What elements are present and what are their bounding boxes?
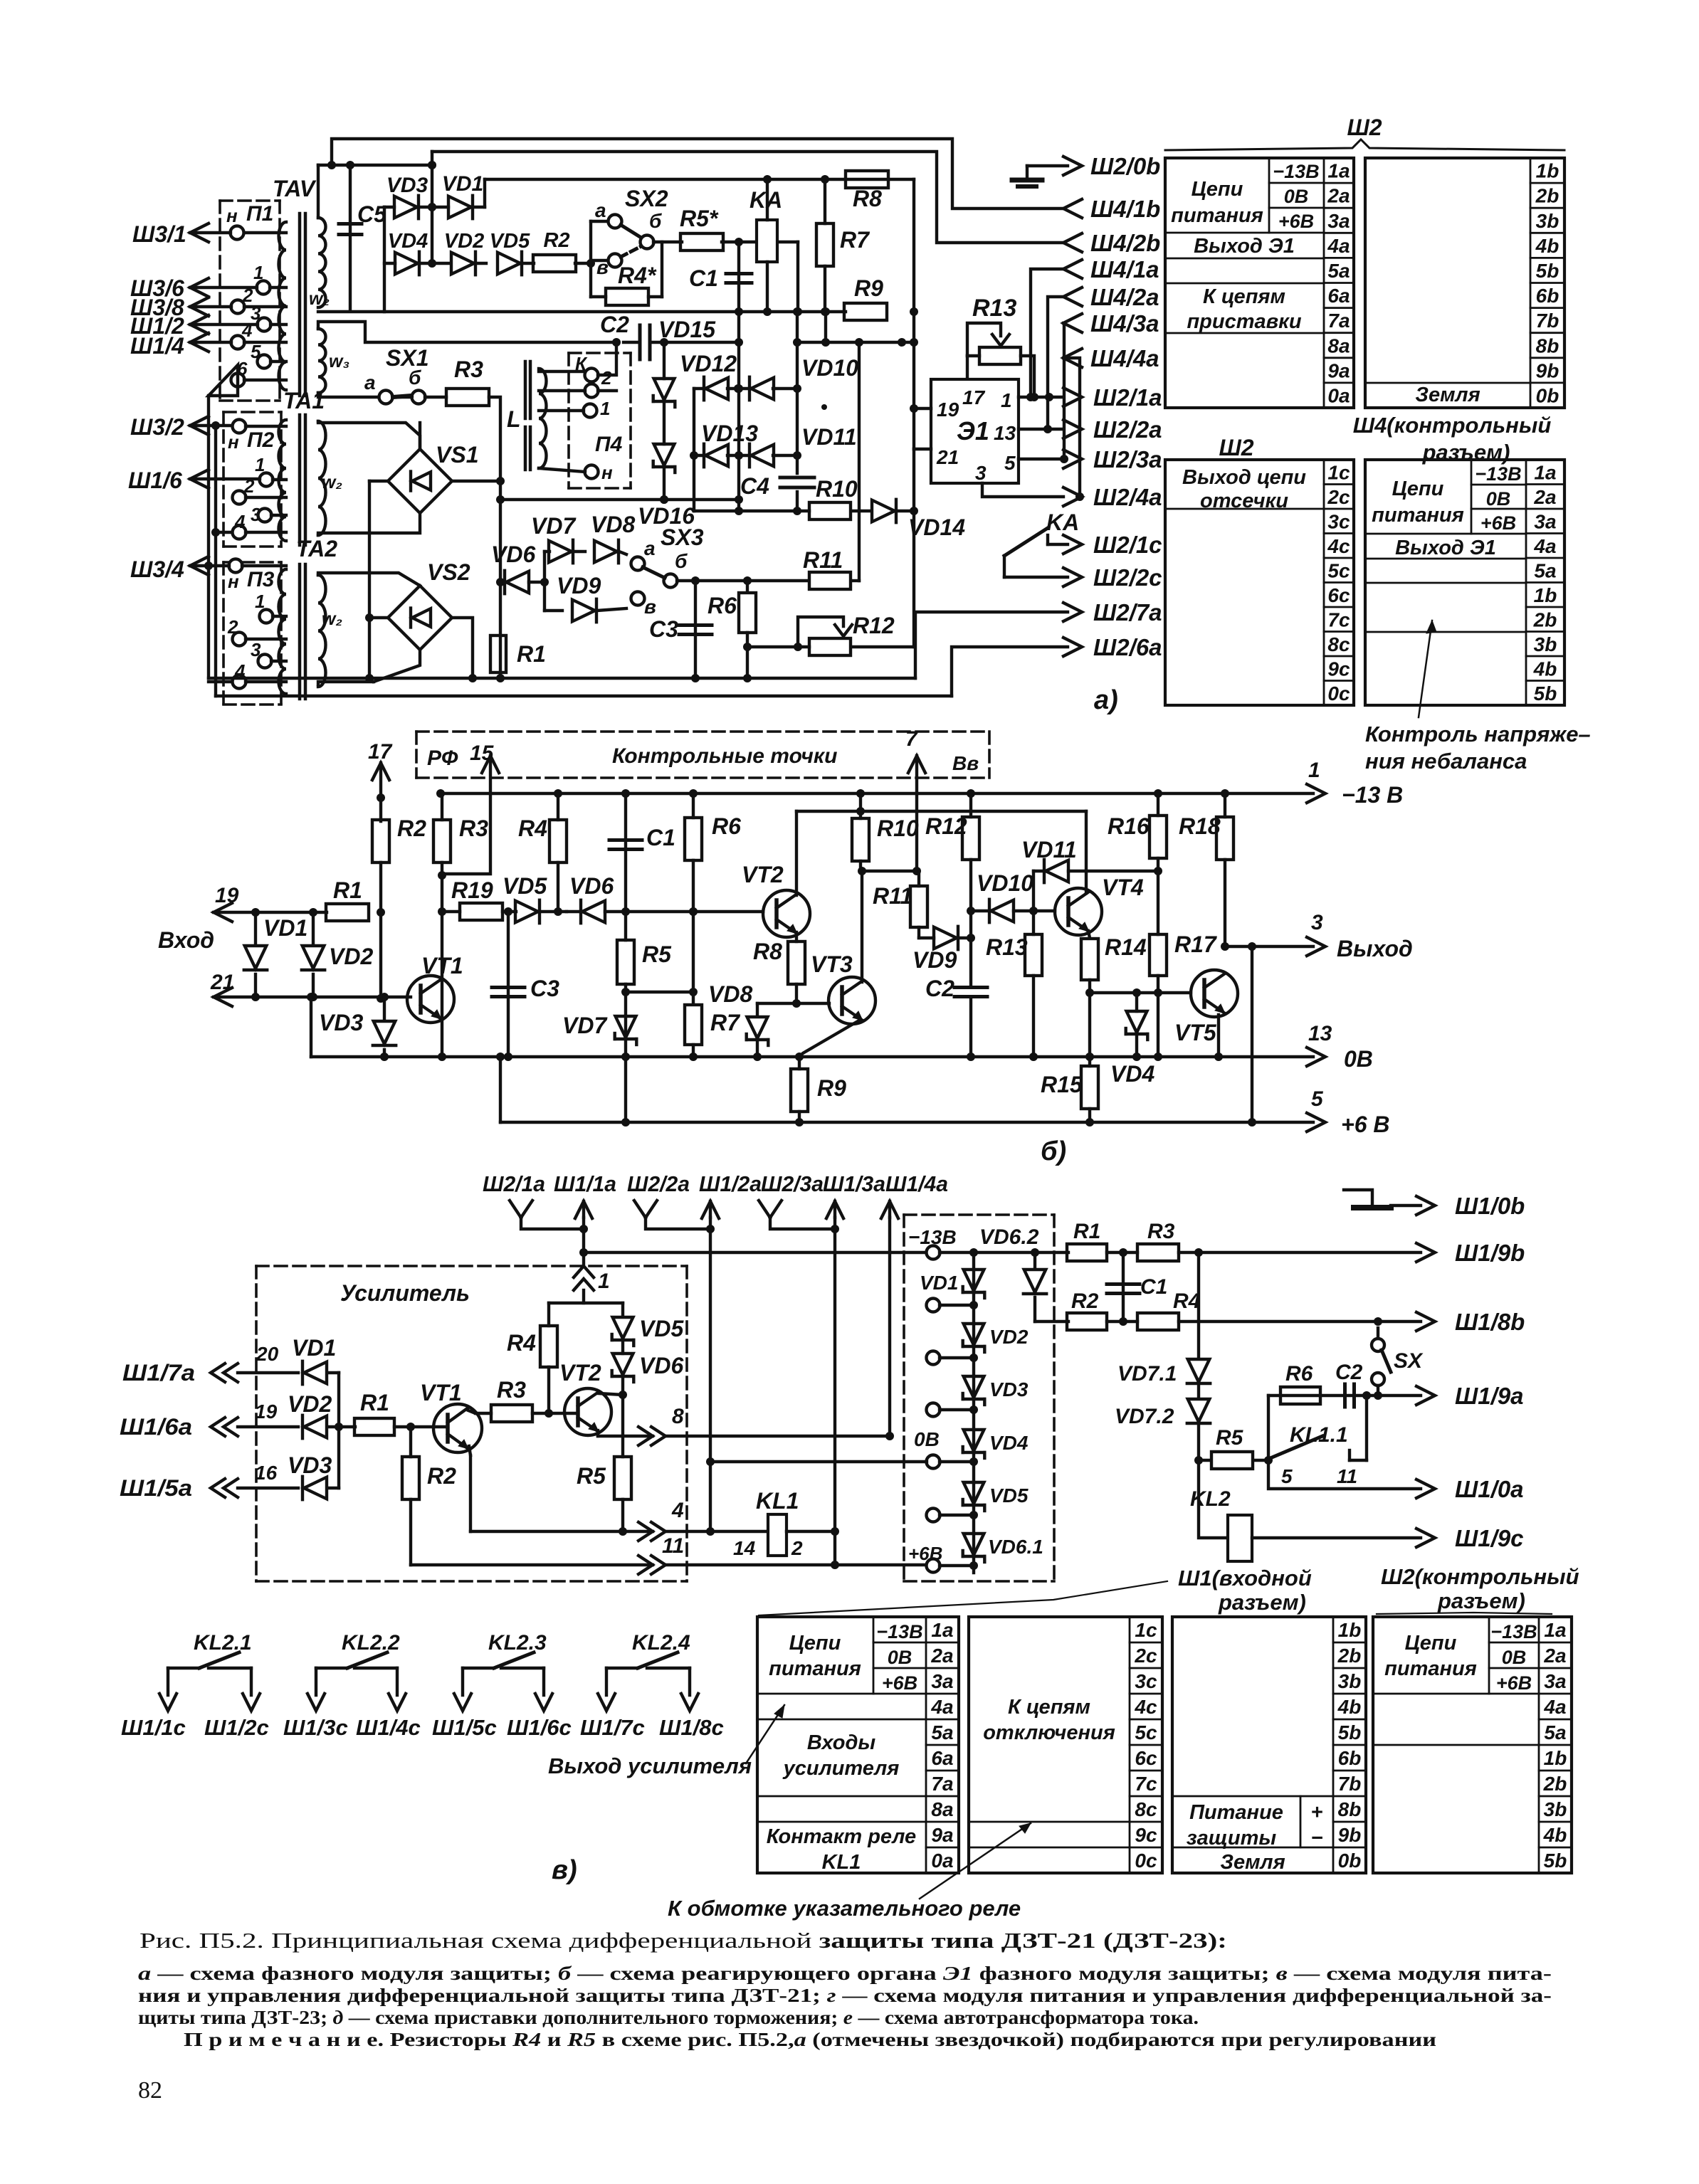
svg-text:VT1: VT1: [421, 953, 463, 978]
transistor VT4 of б: [1055, 888, 1102, 935]
wire R2 column: [379, 862, 382, 998]
svg-text:VD3: VD3: [288, 1452, 332, 1478]
svg-text:8a: 8a: [931, 1798, 953, 1820]
svg-text:Земля: Земля: [1220, 1851, 1285, 1874]
svg-text:Ш1/3а: Ш1/3а: [823, 1171, 885, 1196]
svg-text:П4: П4: [595, 433, 623, 456]
svg-text:3: 3: [975, 462, 987, 484]
annotation arrow to table row 4a: [746, 1705, 784, 1763]
svg-text:5a: 5a: [931, 1721, 953, 1743]
wire Ш4/1a riser: [1031, 269, 1063, 397]
svg-text:R14: R14: [1105, 934, 1147, 960]
svg-text:VD3: VD3: [386, 174, 428, 197]
svg-text:6b: 6b: [1536, 285, 1559, 307]
svg-text:Ш2/6а: Ш2/6а: [1093, 634, 1162, 660]
svg-text:0c: 0c: [1327, 682, 1350, 705]
svg-text:разъем): разъем): [1437, 1588, 1525, 1613]
capacitor C5: [349, 165, 352, 311]
svg-text:4b: 4b: [1535, 235, 1559, 257]
wire input 19: [214, 903, 232, 922]
brace over top tables: [1165, 139, 1564, 150]
rectifier bridge VS2: [388, 586, 452, 650]
zener VD2 chain: [964, 1324, 984, 1345]
wire 4 to KL1: [666, 1530, 768, 1533]
svg-text:KL2.4: KL2.4: [632, 1631, 690, 1655]
svg-text:3b: 3b: [1544, 1798, 1567, 1820]
resistor R7: [816, 223, 833, 266]
svg-text:П р и м е ч а н и е. Резисто: П р и м е ч а н и е. Резисторы R4 и R5 в…: [184, 2029, 1436, 2050]
svg-text:C1: C1: [646, 825, 675, 850]
svg-text:VD2: VD2: [989, 1326, 1029, 1348]
svg-text:1: 1: [253, 262, 263, 283]
svg-text:19: 19: [215, 884, 239, 907]
terminal 4 of П1: [231, 336, 245, 349]
wire SX1 to R3: [425, 396, 446, 399]
wire Ш1/1а stem: [582, 1218, 585, 1266]
svg-text:1: 1: [255, 454, 265, 475]
svg-text:R4: R4: [518, 816, 547, 841]
connector table Ш2 rows a: [1165, 158, 1354, 408]
wire VT1 base: [411, 1425, 447, 1428]
svg-text:приставки: приставки: [1187, 310, 1301, 333]
wire lower rail 1: [209, 677, 915, 680]
svg-text:1: 1: [255, 591, 265, 612]
wire 21 rail drop: [310, 997, 312, 1057]
svg-text:питания: питания: [1384, 1657, 1477, 1680]
svg-text:Контакт реле: Контакт реле: [767, 1825, 916, 1848]
resistor R12 potentiometer: [809, 638, 851, 655]
svg-text:5b: 5b: [1338, 1721, 1362, 1743]
resistor R18: [1216, 817, 1234, 860]
svg-text:VT3: VT3: [811, 951, 853, 977]
svg-text:Ш4/3а: Ш4/3а: [1090, 310, 1159, 337]
wire diode chain: [972, 1252, 975, 1573]
terminal -13В: [927, 1246, 940, 1260]
svg-text:0В: 0В: [1502, 1647, 1527, 1668]
zener VD1 chain: [964, 1270, 984, 1291]
svg-text:3a: 3a: [1544, 1670, 1566, 1692]
dot between VD10 VD11: [821, 404, 827, 410]
wire 11 output: [666, 1563, 927, 1566]
resistor R1 of section a: [490, 635, 506, 672]
svg-text:3a: 3a: [1327, 210, 1350, 232]
wire R3 column: [441, 793, 443, 820]
wire 8 output: [666, 1435, 890, 1437]
arrow Ш1/9b: [1416, 1243, 1435, 1262]
svg-text:0В: 0В: [914, 1428, 940, 1450]
wire R5 output riser to rail: [796, 242, 799, 312]
svg-text:KL1: KL1: [756, 1488, 799, 1514]
svg-text:R2: R2: [427, 1463, 456, 1489]
svg-text:R3: R3: [497, 1377, 526, 1403]
svg-text:VD7.1: VD7.1: [1117, 1362, 1177, 1386]
wire +6В bus: [499, 1057, 502, 1122]
terminal 2 of П3: [233, 633, 246, 646]
svg-text:19: 19: [937, 399, 959, 421]
svg-text:2: 2: [227, 616, 238, 638]
wire rail1 riser to Ш2/7a: [915, 612, 1068, 678]
wire Ш2/1а link: [521, 1218, 584, 1229]
svg-text:3b: 3b: [1534, 633, 1557, 655]
arrow stub Ш2/1а: [510, 1201, 521, 1218]
svg-text:VD5: VD5: [639, 1316, 684, 1341]
resistor R2: [533, 255, 576, 272]
arrow -13V: [1307, 784, 1325, 803]
svg-text:н: н: [228, 571, 239, 592]
svg-text:VD1: VD1: [292, 1335, 336, 1361]
svg-text:4a: 4a: [1543, 1696, 1566, 1718]
svg-text:VD6.2: VD6.2: [979, 1225, 1039, 1249]
resistor R3 of б: [433, 820, 451, 862]
wire TA2-w2 to VS2: [318, 573, 420, 586]
wire VD3 row riser: [383, 207, 386, 312]
transistor VT3 of б: [829, 977, 875, 1024]
terminal н of П4: [585, 465, 599, 479]
svg-text:TA2: TA2: [296, 536, 337, 561]
svg-text:К цепям: К цепям: [1203, 285, 1285, 308]
wire R19 left: [442, 910, 460, 913]
capacitor C1 of б: [624, 793, 627, 912]
svg-text:4: 4: [241, 320, 253, 341]
svg-text:Ш3/1: Ш3/1: [132, 221, 186, 247]
svg-text:1a: 1a: [1327, 160, 1350, 182]
svg-text:w₂: w₂: [309, 289, 330, 309]
svg-text:R1: R1: [360, 1390, 389, 1415]
svg-text:VT1: VT1: [420, 1380, 462, 1405]
svg-text:R18: R18: [1179, 813, 1221, 839]
terminal 1 of П3: [260, 610, 273, 623]
capacitor C2 of section a: [638, 325, 642, 359]
svg-text:VD3: VD3: [319, 1010, 363, 1035]
contact в of SX3: [631, 592, 645, 606]
R13 pot arrow loop: [967, 323, 1001, 356]
svg-text:−13В: −13В: [1273, 161, 1319, 182]
connector П1 dashed box: [220, 199, 280, 202]
svg-text:9a: 9a: [1327, 359, 1350, 381]
wire R7 top: [824, 179, 826, 223]
svg-text:VT2: VT2: [559, 1360, 601, 1386]
wire VD14 riser: [912, 449, 915, 647]
svg-text:щиты типа ДЗТ-23; д — схема: щиты типа ДЗТ-23; д — схема приставки до…: [138, 2007, 1199, 2028]
capacitor C3 of б: [507, 912, 510, 1057]
svg-text:17: 17: [368, 740, 393, 764]
svg-text:3: 3: [1311, 911, 1323, 934]
terminal 5 of П1: [258, 355, 271, 369]
svg-text:Вв: Вв: [952, 752, 979, 774]
wire amplifier feed: [582, 1290, 585, 1303]
svg-text:VD8: VD8: [708, 981, 752, 1007]
wire Ш3/1 to terminal н: [190, 223, 209, 242]
wire pin1 out: [1019, 396, 1063, 399]
svg-text:в: в: [644, 596, 656, 618]
resistor R3: [446, 389, 489, 406]
diode VD10 of б: [971, 909, 988, 912]
svg-text:2a: 2a: [930, 1645, 953, 1667]
transistor VT1 of б: [407, 976, 454, 1023]
svg-text:2a: 2a: [1327, 185, 1350, 207]
wire C2 loop right riser: [1365, 1396, 1368, 1460]
svg-text:1a: 1a: [931, 1619, 953, 1641]
svg-text:VD2: VD2: [329, 944, 373, 969]
svg-text:б): б): [1041, 1136, 1066, 1166]
svg-text:8: 8: [672, 1405, 684, 1428]
diode VD14: [851, 510, 870, 512]
terminal mid of П4: [585, 384, 599, 398]
wire w2 top riser: [317, 165, 320, 218]
svg-text:Ш1/0b: Ш1/0b: [1455, 1193, 1525, 1219]
terminal row6: [927, 1509, 940, 1522]
svg-text:Цепи: Цепи: [1392, 478, 1444, 500]
dashed box Усилитель: [256, 1265, 687, 1267]
terminal 3 of П2: [258, 509, 272, 522]
svg-text:Ш1/9с: Ш1/9с: [1455, 1525, 1524, 1551]
terminal 2 of П2: [233, 491, 246, 505]
zener VD5 of в: [613, 1317, 633, 1339]
resistor R5*: [680, 233, 723, 250]
svg-text:−13В: −13В: [1475, 463, 1521, 485]
svg-text:R16: R16: [1108, 813, 1150, 839]
svg-text:Ш1/8с: Ш1/8с: [659, 1715, 724, 1740]
svg-text:VD5: VD5: [503, 873, 547, 899]
svg-text:а: а: [364, 371, 376, 394]
svg-text:1c: 1c: [1135, 1619, 1157, 1641]
svg-text:Ш1/8b: Ш1/8b: [1455, 1309, 1525, 1335]
diode VD1: [448, 196, 471, 218]
svg-text:3b: 3b: [1536, 210, 1559, 232]
svg-text:C3: C3: [530, 976, 559, 1001]
svg-text:20: 20: [256, 1343, 279, 1365]
resistor R1 of б: [326, 904, 369, 921]
terminal 0В: [927, 1455, 940, 1469]
terminal 3 of П3: [258, 655, 272, 668]
svg-text:6a: 6a: [1327, 285, 1350, 307]
diode VD6.2: [1033, 1252, 1036, 1267]
terminal 1 of П4: [584, 404, 597, 418]
svg-text:VD5: VD5: [490, 230, 530, 253]
zener VD5 chain: [964, 1482, 984, 1504]
svg-text:разъем): разъем): [1218, 1590, 1306, 1615]
chevron 16: [211, 1479, 225, 1497]
diode VD13a: [705, 445, 728, 467]
SX2 lever a-б: [621, 225, 641, 238]
svg-text:VT5: VT5: [1174, 1020, 1217, 1045]
svg-text:Рис. П5.2. Принципиальная: Рис. П5.2. Принципиальная схема дифферен…: [140, 1928, 1227, 1953]
svg-text:R9: R9: [854, 275, 883, 301]
wire VD8 to VT3 base: [757, 1002, 829, 1005]
arrow Ш2/3a: [1063, 450, 1082, 468]
contact a of SX2: [609, 215, 622, 228]
svg-text:отключения: отключения: [983, 1721, 1115, 1744]
zener VD6.1 chain: [964, 1534, 984, 1555]
arrow Ш2/1a: [1063, 388, 1082, 406]
inductor L core: [524, 362, 527, 418]
wire Ш1/0b: [1391, 1204, 1421, 1207]
terminal н of П1: [231, 226, 244, 240]
svg-text:VD15: VD15: [658, 317, 716, 342]
connector table F отключение: [969, 1617, 1162, 1873]
ground symbol at Ш2/0b: [1026, 166, 1029, 180]
svg-text:Ш1/5а: Ш1/5а: [120, 1475, 192, 1501]
svg-text:а — схема фазного модуля за: а — схема фазного модуля защиты; б — схе…: [138, 1963, 1552, 1984]
resistor R2 right: [1035, 1320, 1068, 1323]
svg-text:R5*: R5*: [680, 206, 719, 231]
svg-text:5b: 5b: [1534, 682, 1557, 705]
arrow +6В: [1307, 1113, 1325, 1131]
svg-text:1b: 1b: [1534, 584, 1557, 606]
wire Выход: [1225, 945, 1313, 948]
terminal row3: [927, 1351, 940, 1365]
resistor R16: [1150, 816, 1167, 858]
svg-text:C2: C2: [1335, 1361, 1363, 1384]
svg-text:0a: 0a: [931, 1850, 953, 1872]
svg-text:Ш4/2b: Ш4/2b: [1090, 230, 1160, 256]
resistor R6 right: [1280, 1387, 1320, 1404]
svg-text:2b: 2b: [1337, 1645, 1362, 1667]
capacitor C3 of section a: [694, 581, 697, 678]
connector table G: [1172, 1617, 1366, 1873]
svg-text:н: н: [601, 462, 613, 483]
svg-text:0В: 0В: [1284, 186, 1309, 207]
svg-text:L: L: [507, 406, 521, 432]
wire VS left bus: [368, 481, 371, 678]
svg-text:R8: R8: [753, 939, 782, 964]
wire Ш2/0b: [1027, 164, 1068, 167]
diode VD9 of section a: [545, 609, 562, 612]
resistor R3 right: [1137, 1244, 1179, 1261]
svg-text:П2: П2: [247, 428, 275, 452]
wire R8 bottom: [795, 984, 798, 1003]
wire П2 pins to TA1 primary: [246, 425, 286, 428]
wire Ш4/2a riser: [1048, 297, 1063, 429]
svg-text:4: 4: [234, 511, 246, 532]
wire link riser x1160: [824, 312, 827, 342]
svg-text:0b: 0b: [1338, 1850, 1362, 1872]
inductor L winding: [539, 369, 547, 468]
svg-text:R5: R5: [1216, 1426, 1244, 1450]
relay coil KA: [757, 220, 777, 262]
contact б of SX2: [641, 236, 654, 249]
svg-text:Контроль напряже–: Контроль напряже–: [1365, 722, 1591, 747]
svg-text:2a: 2a: [1543, 1645, 1566, 1667]
arrow stub Ш1/3а: [826, 1201, 843, 1218]
arrow Ш2/2a: [1063, 420, 1082, 438]
diode VD12a: [705, 378, 728, 400]
wire VT4 collector riser: [1085, 811, 1088, 893]
svg-text:R1: R1: [1073, 1220, 1100, 1243]
connector chevron 8: [651, 1427, 666, 1445]
resistor R8: [846, 171, 888, 188]
wire R13 right riser: [1021, 356, 1034, 397]
wire R19 right: [503, 910, 516, 913]
wire Ш3/4 to П3-н: [190, 556, 209, 575]
wire w3 top lead: [318, 322, 616, 342]
wire VT4 base: [1033, 909, 1055, 912]
svg-text:Ш2/0b: Ш2/0b: [1090, 153, 1160, 179]
TA2 core: [298, 564, 302, 699]
svg-text:R4*: R4*: [618, 263, 657, 288]
svg-text:R9: R9: [817, 1075, 846, 1101]
capacitor C1: [737, 242, 740, 511]
wire Ш3/6 to terminal 1: [190, 278, 209, 297]
SX3 lever: [643, 567, 665, 578]
wire R11 riser: [858, 342, 861, 581]
svg-text:C3: C3: [649, 616, 678, 642]
wire б of SX3 output: [677, 579, 809, 582]
svg-text:0c: 0c: [1135, 1850, 1157, 1872]
svg-text:а): а): [1094, 685, 1118, 715]
wire pin5 out: [1019, 458, 1063, 460]
zener VD7 of б: [616, 1016, 636, 1038]
svg-text:9b: 9b: [1536, 359, 1559, 381]
terminal н of П3: [229, 559, 243, 573]
wire pin19 stub: [914, 407, 931, 410]
svg-text:1b: 1b: [1544, 1747, 1567, 1769]
svg-text:2b: 2b: [1533, 608, 1557, 631]
svg-text:1a: 1a: [1534, 461, 1556, 483]
svg-text:R6: R6: [712, 813, 741, 839]
svg-text:Ш1/2а: Ш1/2а: [699, 1171, 762, 1196]
zener VD4 of б: [1135, 993, 1138, 1011]
svg-text:0a: 0a: [1327, 384, 1350, 406]
svg-text:R12: R12: [853, 613, 895, 638]
svg-text:Вход: Вход: [158, 927, 214, 953]
svg-text:R11: R11: [873, 883, 912, 909]
svg-text:VD5: VD5: [989, 1484, 1029, 1507]
svg-text:н: н: [226, 205, 238, 226]
terminal 4 of П2: [233, 526, 246, 539]
resistor R11 of б: [910, 886, 927, 927]
svg-text:VD11: VD11: [801, 424, 857, 450]
wire TA1-w2 to VS1: [318, 421, 420, 449]
svg-text:R13: R13: [986, 934, 1028, 960]
svg-text:R7: R7: [840, 227, 870, 253]
wire Ш1/0а: [1268, 1460, 1421, 1489]
svg-text:C5: C5: [357, 201, 387, 227]
svg-text:а: а: [595, 199, 606, 221]
svg-text:KA: KA: [1046, 510, 1079, 535]
svg-text:VD10: VD10: [801, 355, 858, 381]
svg-text:Выход Э1: Выход Э1: [1395, 537, 1496, 559]
wire chain stubs: [940, 1304, 974, 1307]
svg-text:3: 3: [251, 504, 261, 525]
zener VD3 chain: [964, 1376, 984, 1398]
zener VD6 of в: [621, 1342, 624, 1354]
wire VD5-VD6 mid: [567, 910, 579, 913]
zener VD4 chain: [964, 1430, 984, 1451]
svg-text:VD6: VD6: [491, 542, 535, 567]
svg-text:0В: 0В: [1344, 1046, 1373, 1072]
wire VT5 emitter: [1217, 1015, 1220, 1057]
wire Ш1/4а stem: [888, 1218, 891, 1436]
connector table Ш4 rows b: [1365, 158, 1564, 408]
svg-text:5b: 5b: [1544, 1850, 1567, 1872]
svg-text:4c: 4c: [1327, 535, 1350, 557]
resistor R1 right: [1035, 1251, 1068, 1254]
svg-text:VD2: VD2: [288, 1391, 332, 1417]
svg-text:SX3: SX3: [661, 524, 704, 550]
arrow stub Ш2/3а: [759, 1201, 770, 1218]
wire top rail A to Ш4/1b: [332, 139, 1063, 209]
svg-text:KL1.1: KL1.1: [1290, 1423, 1348, 1447]
svg-text:w₂: w₂: [322, 609, 342, 629]
TA2 primary winding: [279, 569, 287, 694]
resistor R17: [1150, 934, 1167, 976]
svg-text:2: 2: [601, 367, 612, 389]
wire R5* output: [722, 241, 798, 243]
contact б of SX1: [412, 391, 426, 404]
svg-text:13: 13: [994, 422, 1016, 444]
resistor R3 of в: [491, 1405, 532, 1422]
